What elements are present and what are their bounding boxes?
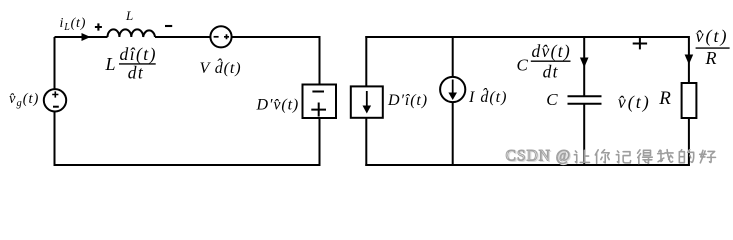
char ni xyxy=(595,150,609,164)
svg-text:D′v̂(t): D′v̂(t) xyxy=(256,97,300,114)
svg-text:dî(t): dî(t) xyxy=(120,44,157,64)
wire top-left segment (source to inductor) xyxy=(55,36,108,38)
wire box bottom to bottom rail xyxy=(319,118,321,166)
char wo xyxy=(658,150,673,163)
wire left rail upper segment xyxy=(365,36,367,86)
svg-text:R: R xyxy=(705,48,717,68)
svg-text:v̂(t): v̂(t) xyxy=(696,26,729,47)
wire branch to current source xyxy=(452,37,454,77)
label L dî(t)/dt xyxy=(105,44,157,83)
svg-text:L: L xyxy=(125,8,133,23)
label v̂(t)/R fraction xyxy=(696,26,730,68)
svg-text:iL(t): iL(t) xyxy=(60,16,87,33)
wire bottom rail (right circuit) xyxy=(365,164,690,166)
label + (inductor left polarity) xyxy=(95,23,102,30)
char rang xyxy=(574,150,589,163)
wire bottom rail (left circuit) xyxy=(54,164,321,166)
wire V-source to top-right corner xyxy=(232,36,321,85)
svg-text:I d̂(t): I d̂(t) xyxy=(468,87,507,106)
svg-text:dv̂(t): dv̂(t) xyxy=(532,41,572,61)
char ji xyxy=(616,151,630,163)
label i_L(t) xyxy=(60,16,87,33)
voltage source V d̂(t) xyxy=(210,26,231,47)
independent current source I d̂(t) xyxy=(440,77,465,102)
label - (inductor right polarity) xyxy=(165,25,172,27)
label + (output polarity) xyxy=(633,38,647,50)
wire capacitor branch lower xyxy=(583,104,585,166)
svg-text:v̂g(t): v̂g(t) xyxy=(9,91,39,109)
wire current source to bottom rail xyxy=(452,102,454,166)
svg-text:C: C xyxy=(517,56,529,75)
watermark CSDN xyxy=(506,147,573,165)
label C dv̂(t)/dt xyxy=(517,41,572,82)
svg-text:L: L xyxy=(105,54,116,74)
dependent current source D'î(t) (box with arrow) xyxy=(351,86,383,117)
independent source v̂g(t) xyxy=(44,89,66,111)
node arrow capacitor current xyxy=(580,58,589,68)
wire left rail lower segment xyxy=(365,118,367,166)
wire top rail (right circuit) xyxy=(366,36,689,37)
wire left rail above source xyxy=(54,37,56,89)
svg-text:R: R xyxy=(658,88,671,109)
watermark chinese characters (drawn strokes) xyxy=(574,150,715,164)
svg-text:v̂(t): v̂(t) xyxy=(618,92,651,113)
node arrow load current xyxy=(685,55,694,65)
node arrow i_L current direction on top wire xyxy=(82,33,91,41)
svg-text:C: C xyxy=(546,90,558,109)
char de xyxy=(638,150,653,164)
wire left rail below source xyxy=(54,112,56,167)
wire right rail lower xyxy=(688,118,690,166)
wire right rail upper xyxy=(688,36,690,83)
wire inductor to V-source xyxy=(155,36,210,38)
resistor R xyxy=(682,83,697,118)
capacitor C xyxy=(568,96,602,104)
svg-text:dt: dt xyxy=(543,61,559,81)
svg-text:CSDN @: CSDN @ xyxy=(506,147,572,164)
svg-text:dt: dt xyxy=(128,63,144,83)
wire capacitor branch upper xyxy=(583,37,585,96)
char di xyxy=(679,150,693,163)
dependent voltage source D'v̂(t) (box) xyxy=(303,85,337,119)
inductor L xyxy=(108,29,156,37)
svg-text:D′î(t): D′î(t) xyxy=(387,92,428,109)
svg-text:V d̂(t): V d̂(t) xyxy=(200,58,242,77)
char hao xyxy=(700,150,716,163)
